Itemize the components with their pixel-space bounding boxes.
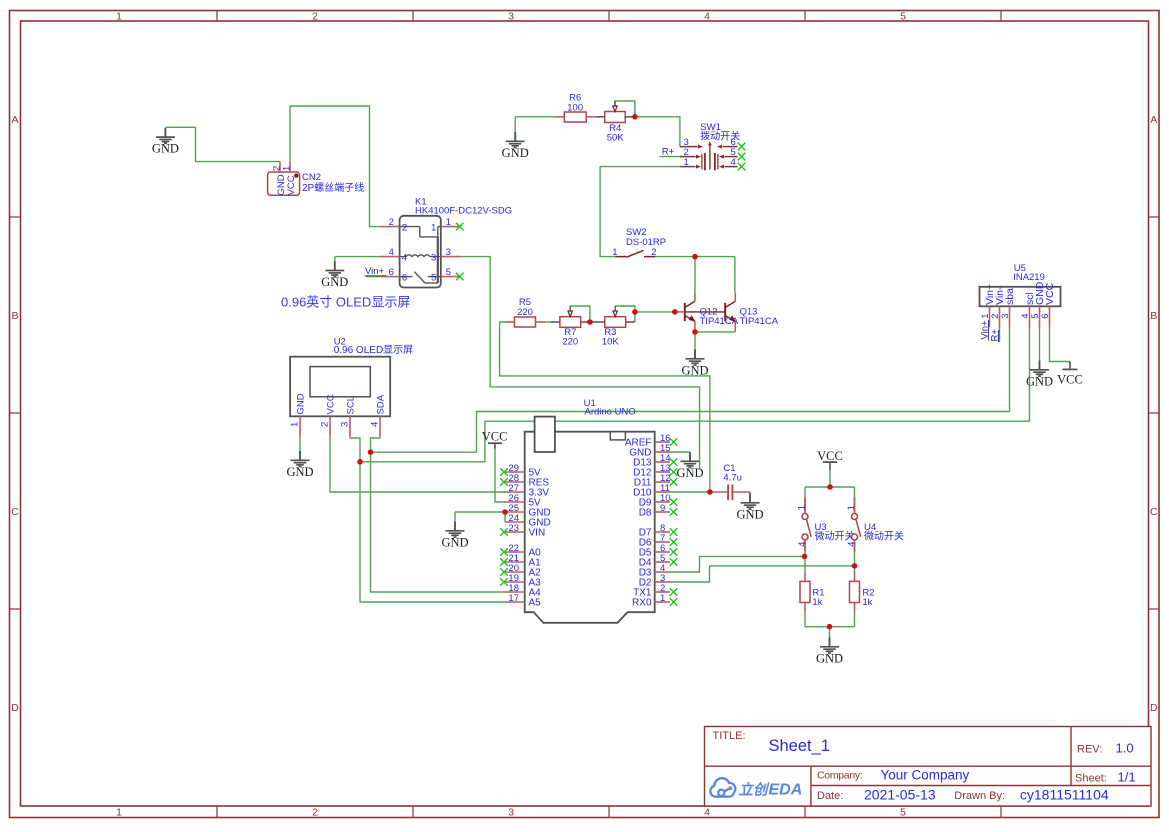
svg-text:1: 1	[116, 807, 122, 819]
svg-text:5: 5	[431, 272, 436, 283]
svg-text:3: 3	[1000, 314, 1011, 319]
svg-text:17: 17	[508, 593, 519, 604]
svg-text:4: 4	[846, 542, 857, 547]
svg-text:SDA: SDA	[376, 394, 387, 414]
svg-text:5: 5	[446, 267, 451, 278]
svg-text:D: D	[11, 702, 19, 714]
svg-text:0.96 OLED显示屏: 0.96 OLED显示屏	[334, 344, 413, 356]
svg-text:C: C	[1150, 506, 1158, 518]
svg-text:GND: GND	[152, 142, 179, 156]
svg-text:B: B	[11, 310, 18, 322]
svg-text:2: 2	[320, 422, 331, 427]
svg-text:DS-01RP: DS-01RP	[626, 237, 666, 248]
svg-text:2021-05-13: 2021-05-13	[864, 786, 936, 802]
svg-text:3: 3	[508, 807, 514, 819]
svg-text:4.7u: 4.7u	[723, 473, 742, 484]
svg-text:5: 5	[900, 11, 906, 23]
svg-text:1: 1	[446, 217, 451, 228]
svg-text:6: 6	[402, 272, 407, 283]
svg-text:Sheet:: Sheet:	[1075, 772, 1107, 784]
svg-text:VCC: VCC	[286, 175, 297, 195]
svg-text:VCC: VCC	[817, 449, 843, 463]
svg-text:3: 3	[446, 247, 451, 258]
svg-text:220: 220	[562, 336, 578, 347]
svg-text:1/1: 1/1	[1118, 769, 1136, 784]
svg-text:INA219: INA219	[1013, 272, 1045, 283]
svg-text:GND: GND	[502, 146, 529, 160]
svg-text:Drawn By:: Drawn By:	[954, 790, 1005, 802]
svg-text:A: A	[11, 114, 18, 126]
svg-text:拨动开关: 拨动开关	[700, 130, 740, 143]
svg-text:4: 4	[731, 157, 736, 168]
svg-text:4: 4	[389, 247, 394, 258]
svg-text:GND: GND	[816, 651, 843, 665]
svg-text:1k: 1k	[862, 597, 872, 608]
svg-text:VCC: VCC	[1044, 282, 1056, 305]
svg-text:TITLE:: TITLE:	[713, 730, 746, 742]
svg-text:2: 2	[402, 222, 407, 233]
svg-text:Company:: Company:	[817, 770, 862, 782]
svg-text:4: 4	[402, 252, 407, 263]
svg-text:微动开关: 微动开关	[864, 530, 904, 543]
svg-text:2: 2	[651, 247, 656, 258]
svg-text:1: 1	[797, 505, 808, 510]
svg-text:GND: GND	[681, 363, 708, 377]
svg-text:1.0: 1.0	[1116, 740, 1134, 755]
svg-text:1: 1	[846, 505, 857, 510]
svg-text:10K: 10K	[602, 336, 620, 347]
svg-text:1: 1	[116, 11, 122, 23]
svg-text:EDA: EDA	[769, 782, 803, 799]
svg-text:4: 4	[370, 422, 381, 427]
svg-text:0.96英寸 OLED显示屏: 0.96英寸 OLED显示屏	[281, 294, 410, 309]
svg-text:6: 6	[389, 267, 394, 278]
svg-text:A: A	[1150, 114, 1157, 126]
svg-text:D8: D8	[639, 508, 652, 519]
svg-text:4: 4	[704, 11, 710, 23]
svg-text:3: 3	[340, 422, 351, 427]
svg-text:6: 6	[1040, 314, 1051, 319]
svg-text:GND: GND	[441, 535, 468, 549]
svg-text:2: 2	[389, 217, 394, 228]
svg-text:4: 4	[797, 542, 808, 547]
svg-text:REV:: REV:	[1077, 743, 1102, 755]
svg-text:D: D	[1150, 702, 1158, 714]
svg-text:9: 9	[660, 503, 665, 514]
svg-text:GND: GND	[321, 275, 348, 289]
svg-text:VIN: VIN	[529, 528, 546, 539]
svg-text:5: 5	[900, 807, 906, 819]
svg-text:GND: GND	[1026, 374, 1053, 388]
svg-text:2: 2	[312, 11, 318, 23]
svg-text:A5: A5	[529, 598, 542, 609]
svg-text:GND: GND	[296, 393, 307, 414]
svg-text:1: 1	[684, 157, 689, 168]
svg-text:VCC: VCC	[326, 394, 337, 414]
svg-text:VCC: VCC	[482, 430, 508, 444]
svg-text:HK4100F-DC12V-SDG: HK4100F-DC12V-SDG	[415, 205, 512, 216]
svg-text:cy1811511104: cy1811511104	[1020, 786, 1109, 802]
svg-text:1: 1	[290, 422, 301, 427]
svg-text:GND: GND	[286, 465, 313, 479]
svg-text:TIP41CA: TIP41CA	[740, 316, 779, 327]
svg-text:23: 23	[508, 523, 519, 534]
svg-text:100: 100	[567, 102, 583, 113]
svg-text:1: 1	[282, 166, 293, 171]
svg-text:SCL: SCL	[346, 396, 357, 414]
svg-text:RX0: RX0	[632, 598, 652, 609]
svg-text:sba: sba	[1004, 288, 1016, 305]
svg-text:3: 3	[508, 11, 514, 23]
svg-text:1: 1	[660, 593, 665, 604]
svg-text:220: 220	[517, 307, 533, 318]
svg-text:Date:: Date:	[817, 790, 843, 802]
svg-text:4: 4	[704, 807, 710, 819]
svg-text:Sheet_1: Sheet_1	[769, 737, 830, 755]
svg-text:TIP41CA: TIP41CA	[700, 316, 739, 327]
svg-text:1: 1	[612, 247, 617, 258]
svg-text:50K: 50K	[607, 132, 625, 143]
svg-text:CN2: CN2	[302, 172, 321, 183]
svg-text:2: 2	[312, 807, 318, 819]
svg-text:1k: 1k	[812, 597, 822, 608]
svg-text:GND: GND	[676, 466, 703, 480]
svg-text:2P螺丝端子线: 2P螺丝端子线	[302, 181, 364, 194]
svg-text:Your Company: Your Company	[881, 767, 970, 782]
svg-text:1: 1	[431, 222, 436, 233]
svg-text:VCC: VCC	[1057, 373, 1083, 387]
svg-text:B: B	[1150, 310, 1157, 322]
svg-text:立创: 立创	[739, 782, 770, 799]
svg-text:微动开关: 微动开关	[815, 530, 855, 543]
svg-text:GND: GND	[736, 507, 763, 521]
svg-text:C: C	[11, 506, 19, 518]
svg-text:Ardino UNO: Ardino UNO	[585, 407, 636, 418]
svg-text:3: 3	[431, 252, 436, 263]
svg-text:R+: R+	[662, 147, 675, 158]
